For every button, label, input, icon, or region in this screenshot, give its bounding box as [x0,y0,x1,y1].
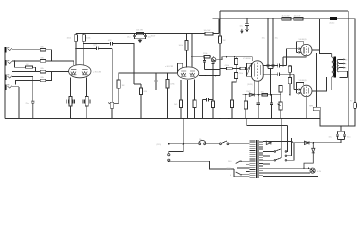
svg-text:470k: 470k [239,73,243,75]
pentode V5 envelope [301,85,312,96]
capacitor C13 [270,95,273,119]
wire ground step to PT [247,119,287,152]
wire V1 cathode A [70,78,72,97]
wire PI line to network [216,57,252,61]
wire R1 to junction [46,50,52,61]
svg-text:100k: 100k [179,45,183,47]
svg-text:(115): (115) [157,144,162,146]
wire to switch [206,143,220,145]
svg-text:(7025): (7025) [247,84,253,86]
svg-text:100k: 100k [86,38,90,40]
triode V2 internals [181,71,195,76]
capacitor C15 16uF [262,18,270,68]
wire elbow to cathode resistor [134,83,141,85]
svg-text:10k 2W: 10k 2W [136,30,143,32]
diode D4 [304,143,315,169]
node crossing dot [133,72,134,73]
resistor R9 cathode with capacitor C3 [83,97,91,107]
wire HT selector drop [281,119,283,159]
resistor R15c tail [211,100,214,120]
capacitor C5 0.022 [108,40,113,45]
wire coupling line B [84,43,110,45]
diode D1 [246,91,254,96]
resistor R3 1M [25,64,32,68]
potentiometer VR3 bias lower [278,95,283,119]
node rectifier junction [313,142,314,143]
capacitor C6 [154,73,157,90]
node rail junction [167,72,168,73]
resistor R21b PI return [230,100,233,119]
wire jack3 tip line [12,77,33,102]
svg-text:1W: 1W [223,40,226,42]
wire B+ rail preamp [76,33,205,35]
wire B+ riser [205,19,219,34]
wire V4 screen elbow [297,42,304,54]
svg-text:4k7 10W: 4k7 10W [282,15,290,17]
resistor R11 820R [139,88,147,95]
box border top [220,11,348,19]
wire jack ground bus left [4,53,6,119]
wire heater bottom tap [263,176,318,178]
potentiometer VR1 volume 1M [117,73,125,103]
transformer T2 core [256,140,258,178]
svg-text:10k 1W: 10k 1W [294,15,301,17]
wire V4 cathode bus [283,56,306,67]
wire network to V3 grid [245,68,247,69]
svg-text:470k: 470k [170,84,174,86]
mains terminal N [168,159,170,161]
wire cap ground link [268,68,273,94]
wire V2 grid rail [119,63,183,73]
capacitor C17 C18 reservoir 32+32uF [329,131,351,139]
node plate A tap [75,48,76,49]
triode V2 ECC83 envelope [177,67,198,79]
primary tap wires [227,161,250,177]
wire V1 plate B [83,41,85,65]
wire main ground bus [5,118,320,120]
svg-text:32u: 32u [347,137,350,139]
svg-text:470k: 470k [225,65,229,67]
wire V3 lower output line [263,73,294,90]
svg-text:220k: 220k [203,53,207,55]
wire R6 to B+ [75,34,77,35]
wire R25 to corner [213,33,219,35]
wire grid B to V1 left [51,71,68,73]
resistor R20 [235,57,238,69]
wire reservoir feed [340,126,342,143]
wire volume drop [111,48,113,102]
wire V5 plate to OT [312,77,327,91]
capacitor C4 0.022 [93,45,98,50]
wire jack2 to R2 [12,60,40,62]
node plate B tap [83,43,84,44]
svg-text:V4 6BQ5: V4 6BQ5 [299,39,308,41]
svg-text:68k: 68k [41,58,44,60]
wire fuse down to reservoir [348,109,355,126]
svg-text:16u: 16u [262,38,265,40]
wire HT taps [263,152,274,164]
svg-text:1M: 1M [122,85,125,87]
transformer T2 secondary windings [259,141,263,175]
node rail junction [155,72,156,73]
wire heater lines [263,168,310,173]
wire jack4 ground drop [12,87,19,119]
lamp PL1 [308,168,322,174]
capacitor C16 16uF [271,18,278,68]
resistor R33 V5 grid leak [288,74,291,96]
wire V5 screen elbow [297,82,304,94]
node junction [236,68,237,69]
wire coupling line A [76,47,96,49]
wire V2 plate A [186,50,188,67]
input jack J1 [5,47,12,53]
wire OT secondary taps [339,59,348,77]
wire bias rail [243,94,276,96]
resistor R21 [232,68,238,100]
wire HT fuse line [354,19,356,103]
wire selector to rectifier riser [287,126,294,161]
wire V5 grid feed [294,89,300,91]
wire cathode A to ground [70,106,72,119]
svg-text:V5 6BQ5: V5 6BQ5 [299,80,308,82]
svg-text:25u: 25u [26,103,29,105]
svg-text:= ECC83: = ECC83 [93,72,102,74]
resistor R31 NFB [309,106,320,111]
wire jack1 to R1 [12,49,40,51]
wire R2 to junction [46,60,52,62]
resistor R15b cathode B [193,80,196,119]
wire V2 cathode to tail [199,75,220,77]
wire C5 to grid rail [112,44,133,84]
wire R18 left [220,67,240,69]
wire NFB to ground bus [319,111,321,119]
resistor R32 V4 grid leak [288,65,291,78]
resistor R24 bias upper [276,86,282,95]
resistor R6 100k plate load [67,35,78,42]
wire V4 plate to OT [312,49,319,51]
resistor R22 [261,91,268,96]
transformer T2 power primary winding [250,141,256,177]
wire V4 grid feed [287,48,301,50]
resistor R13 10k dropper [136,30,144,35]
resistor R26 screen dropper [282,15,292,20]
capacitor C1 on jack line [26,101,35,118]
svg-text:68k: 68k [41,68,44,70]
node grid A junction [51,60,52,61]
pentode V3 envelope [252,61,264,81]
potentiometer VR1 body [110,102,113,108]
svg-text:16u: 16u [127,37,130,39]
wire jack3 to R4 [12,71,40,73]
svg-text:10k 5W: 10k 5W [204,30,211,32]
svg-text:6.3V: 6.3V [317,171,322,173]
svg-text:300V: 300V [151,36,156,38]
capacitor C9 tail network [202,98,213,120]
node bus junctions [211,118,212,119]
wire rectifier line [292,142,341,144]
resistor R25 10k 5W [204,30,214,35]
wire V5 cathode to ground [305,97,307,119]
wire PI feed line [192,56,204,58]
switch S2 HT selector blades [275,149,281,160]
capacitor C14 32uF to ground [240,18,249,32]
pentode V5 internals [304,87,309,96]
wire switch to PT primary [229,143,250,145]
box border right [347,11,349,126]
wire V2 centre pin [187,80,189,119]
transformer T1 core [333,57,336,78]
resistor R1 68k [40,46,46,51]
pentode V4 envelope [301,44,312,55]
resistor R23 to ground [244,95,247,119]
node ground junction [18,118,19,119]
wire V1 cathode B [86,78,88,97]
resistor R17 tail [218,36,225,43]
potentiometer VR2 [210,57,216,62]
mains terminal L [168,143,170,145]
svg-text:NFB: NFB [309,106,314,108]
wire C4 to volume [98,47,112,49]
svg-text:16u: 16u [148,37,151,39]
capacitor C7 [127,34,136,39]
wire chassis ground drop [169,119,184,154]
triode V1 ECC83 envelope [69,65,91,78]
wire R5 to junction [46,72,52,81]
svg-text:10k: 10k [261,91,264,93]
wire mains live [169,143,199,145]
wire R17 down [219,57,221,76]
wire V3 input [245,68,248,70]
transistor-like input box left of V3 [247,63,252,76]
resistor R8 cathode with capacitor C2 [67,97,75,107]
resistor R5 68k [40,77,46,82]
choke L1 [329,17,337,24]
transformer T1 output primary [332,54,334,78]
wire jack2 link [14,61,25,67]
svg-text:16u: 16u [275,38,278,40]
resistor R7 100k plate load [82,35,90,42]
wire grid A to V1 [51,61,73,65]
capacitor C10 [203,57,206,70]
wire cathode B to ground [86,106,88,119]
svg-text:32u: 32u [240,26,243,28]
wire V3 upper output line [263,49,287,68]
wire wiper arm [108,103,119,104]
resistor R14 100k plate load [179,41,189,51]
resistor R12 [166,73,175,119]
resistor R15 cathode A [174,80,183,119]
svg-text:68k: 68k [41,46,44,48]
wire HT winding top to rectifier [263,142,292,143]
box border bottom step [320,119,348,126]
capacitor C12 [257,95,260,119]
B+ dual filter node: capacitor C7 C8 16uF [134,33,135,34]
input jack J4 [5,85,12,91]
resistor R18 470k [225,65,233,70]
node B+ junction [83,33,84,34]
wire R14 to B+ [186,34,188,41]
svg-text:68k: 68k [41,77,44,79]
node junction [226,56,227,57]
pentode V3 internals [254,63,260,79]
node B+ voltage tap [148,33,149,34]
wire R3 to jack3 row [32,67,35,71]
wire PI lower link [205,69,221,71]
node B+ arrow marker [241,29,243,33]
wire V2 plate B direct [191,34,193,68]
fuse F1 2A [199,138,206,145]
fuse F2 HT [350,101,356,109]
wire R11 to ground [140,84,142,119]
switch S1 mains [220,141,229,145]
mains terminal E [168,154,170,156]
transformer T1 secondary [337,59,338,71]
resistor R19 470k [239,67,246,75]
wire R7 to B+ [83,34,85,35]
node grid B junction [51,71,52,72]
wire B+ to OT primary centre [319,19,331,54]
resistor R27 screen dropper [294,15,304,20]
wire NFB line [316,54,318,108]
svg-text:choke: choke [329,23,335,25]
svg-text:32u: 32u [329,137,332,139]
wire R17 hang from B+ line [219,19,221,57]
svg-text:(115): (115) [227,168,232,170]
wire jack4 row to R5 [16,81,41,85]
svg-text:1M: 1M [26,64,29,66]
capacitor C11 [211,60,214,98]
input jack J3 [5,75,12,81]
resistor R16 [203,53,210,58]
node junction [219,56,220,57]
capacitor C8 [144,34,151,39]
wire V1 plate A [75,41,77,65]
wire B+ top rail [213,18,356,20]
input jack J2 [5,60,12,66]
resistor R2 68k [40,58,46,63]
wire OT primary bottom to V5 [331,77,333,90]
wire mains neutral [169,161,250,177]
wire R4 to junction [46,71,52,73]
pentode V4 internals [304,46,309,55]
triode V1 internals [71,69,88,75]
wire V3 cathode pins [254,81,259,95]
resistor R4 68k [40,68,46,73]
svg-text:= ECC83: = ECC83 [165,66,174,68]
ground symbol filter caps [135,39,146,40]
node ground junction [32,118,33,119]
svg-text:V3 EF86: V3 EF86 [243,58,252,60]
svg-text:100k: 100k [67,38,71,40]
node V2 plate B tap [191,56,192,57]
diode D3 [304,141,309,144]
diode D2 [266,141,271,144]
node speaker taps [343,59,348,70]
